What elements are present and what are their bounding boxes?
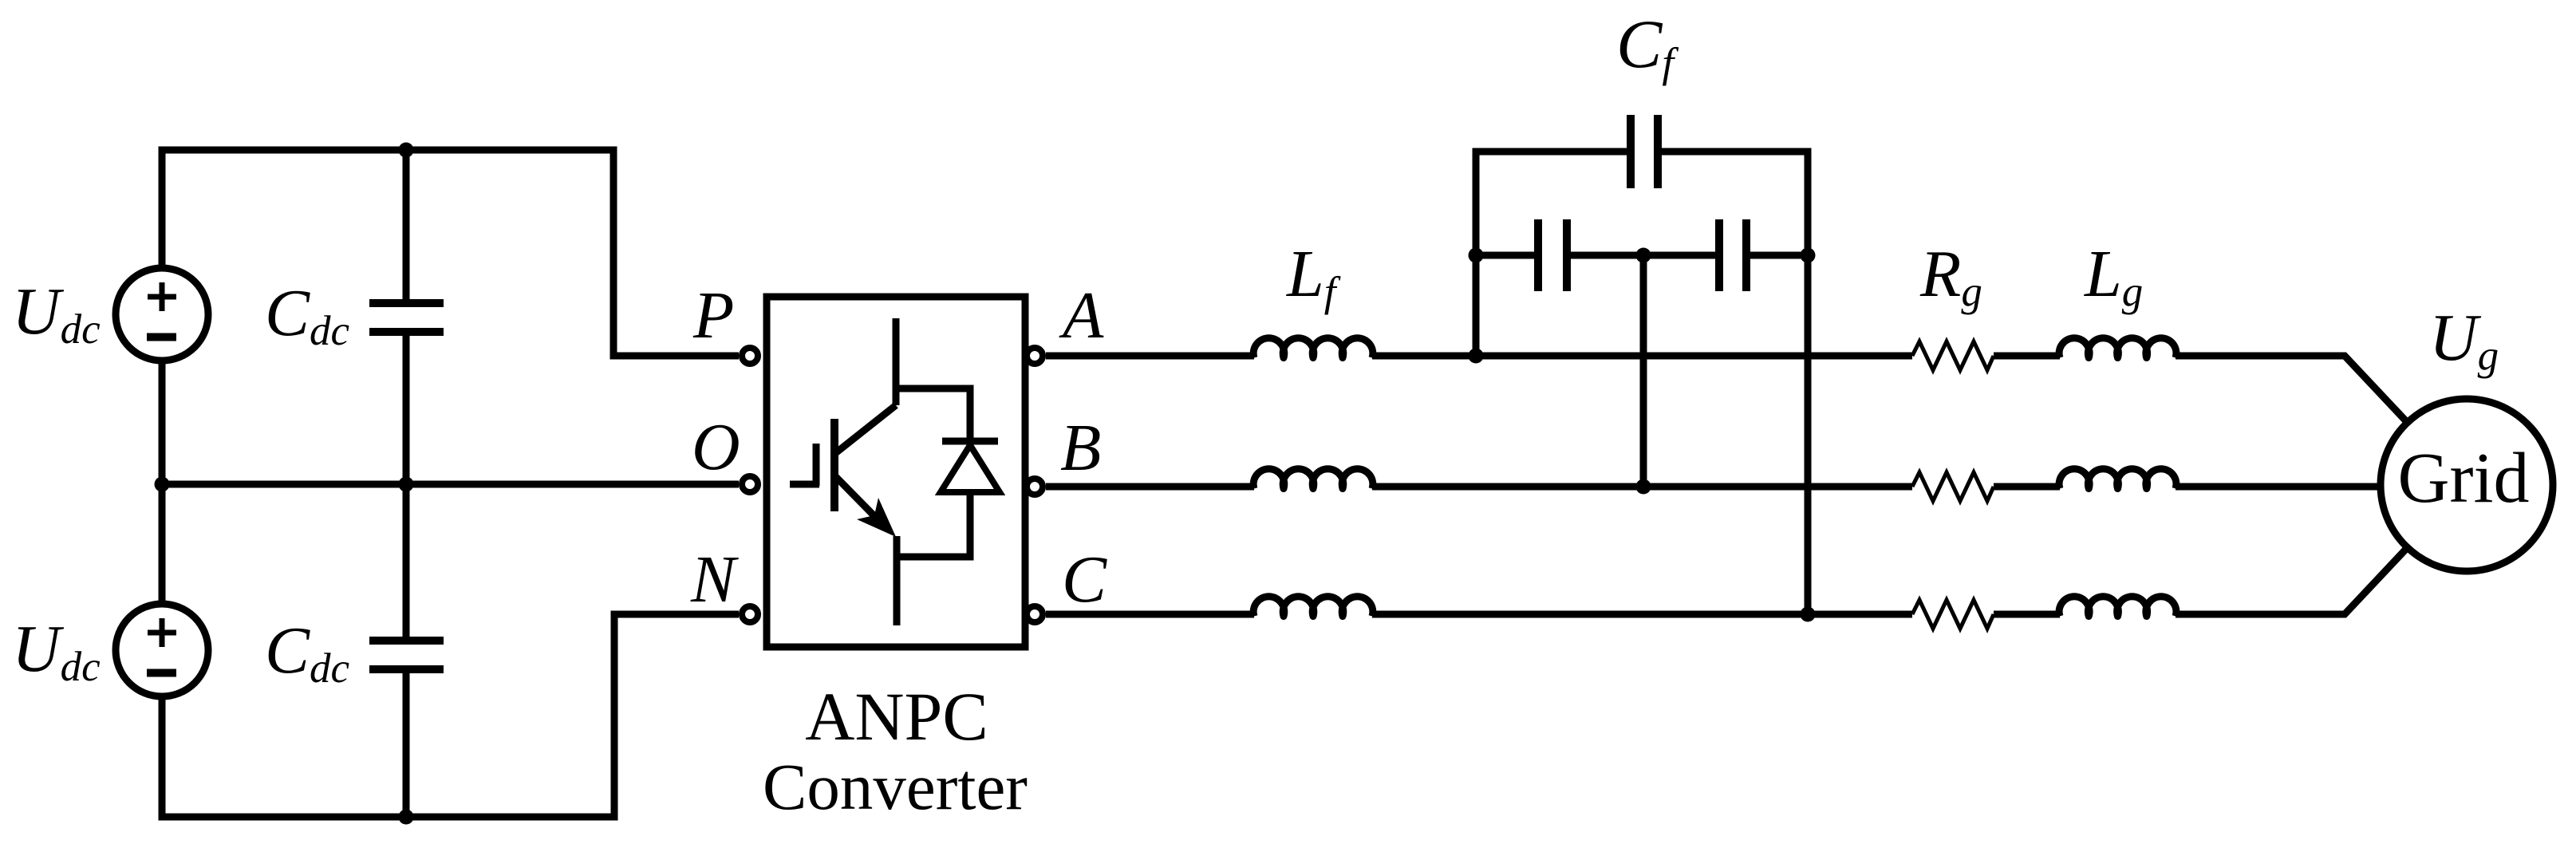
capacitor Cf left (AB) xyxy=(1538,219,1567,291)
svg-text:P: P xyxy=(692,278,734,353)
inductor Lg-B xyxy=(2059,469,2176,489)
junction Cf left node xyxy=(1469,248,1484,263)
wire phase B: terminal to Lf xyxy=(1046,483,1254,491)
collector stub xyxy=(893,318,900,405)
wire Cf mid row right xyxy=(1750,252,1809,259)
svg-text:Rg: Rg xyxy=(1919,237,1982,315)
inductor Lg-A xyxy=(2059,338,2176,358)
capacitor Cdc2 xyxy=(369,641,444,669)
svg-text:Udc: Udc xyxy=(12,274,101,353)
wire phase C: Rg to Lg xyxy=(1994,611,2060,618)
terminal A xyxy=(1027,348,1043,364)
wire left branch: source1 bottom through O bus to source2 top xyxy=(159,361,166,605)
wire phase C: terminal to Lf xyxy=(1046,611,1254,618)
wire phase A: terminal to Lf xyxy=(1046,353,1254,360)
resistor Rg-C xyxy=(1912,600,1994,629)
svg-text:Grid: Grid xyxy=(2398,439,2530,518)
svg-text:A: A xyxy=(1059,278,1104,353)
terminal O xyxy=(742,476,758,492)
inductor Lf-A xyxy=(1253,338,1373,358)
junction O bus / Cdc branch xyxy=(399,477,414,492)
voltage source Udc1 xyxy=(116,268,208,361)
junction phase B / Cf xyxy=(1636,479,1651,495)
junction top bus / Cdc1 xyxy=(399,143,414,158)
resistor Rg-A xyxy=(1912,341,1994,370)
inductor Lf-C xyxy=(1253,597,1373,617)
wire Cf top-right segment and right riser xyxy=(1662,152,1809,614)
wire Cf mid row left xyxy=(1476,252,1535,259)
svg-text:Cdc: Cdc xyxy=(265,276,349,354)
svg-text:Ug: Ug xyxy=(2429,301,2499,379)
body bar xyxy=(830,419,838,511)
wire Cdc2 branch top xyxy=(403,484,410,637)
svg-text:B: B xyxy=(1060,411,1101,485)
svg-text:Lf: Lf xyxy=(1286,237,1341,315)
diode D1 inside converter xyxy=(941,441,1000,492)
svg-text:N: N xyxy=(690,542,739,617)
capacitor Cf right (BC) xyxy=(1719,219,1746,291)
diode triangle xyxy=(941,445,1000,492)
wire Cdc2 branch bottom xyxy=(403,673,410,817)
capacitor Cf top (AC) xyxy=(1631,115,1658,188)
svg-text:C: C xyxy=(1062,542,1107,617)
junction phase C / Cf xyxy=(1801,607,1816,622)
IGBT Q1 inside converter xyxy=(790,318,970,625)
wire phase B: Rg to Lg xyxy=(1994,483,2060,491)
svg-text:Udc: Udc xyxy=(12,612,101,690)
terminal N xyxy=(742,606,758,622)
junction Cf right node xyxy=(1801,248,1816,263)
wire phase B: Lf to Rg xyxy=(1372,483,1912,491)
wire P net: source1 top, top DC bus, right riser, P lead xyxy=(162,150,739,356)
IGBT emitter arrowhead xyxy=(857,498,896,537)
wire phase C: Lg to grid diagonal xyxy=(2176,547,2408,614)
collector diagonal xyxy=(834,405,896,454)
wire Cdc1 branch top xyxy=(403,150,410,300)
wire Cf middle stub to B xyxy=(1640,255,1647,487)
diode cathode bar xyxy=(942,438,998,445)
grid source G1 xyxy=(2381,399,2553,571)
resistor Rg-B xyxy=(1912,472,1994,501)
capacitor Cdc1 xyxy=(369,303,444,332)
terminal P xyxy=(742,348,758,364)
wire phase A: Rg to Lg xyxy=(1994,353,2060,360)
wire phase A: Lg to grid diagonal xyxy=(2176,356,2408,423)
wire Cf left stub and top-left segment xyxy=(1476,152,1627,356)
junction phase A / Cf xyxy=(1469,349,1484,364)
junction Cf middle node xyxy=(1636,248,1651,263)
collector-diode link xyxy=(896,389,970,440)
svg-text:O: O xyxy=(692,410,740,484)
emitter stub xyxy=(894,536,901,625)
wire N net: source2 bottom, bottom bus, right riser, N lead xyxy=(162,614,739,817)
svg-text:Cdc: Cdc xyxy=(265,613,349,692)
wire phase B: Lg to grid xyxy=(2176,483,2381,491)
voltage source Udc2 xyxy=(116,604,208,696)
gate lead xyxy=(790,481,819,488)
wire phase A: Lf to Rg xyxy=(1372,353,1912,360)
inductor Lf-B xyxy=(1253,469,1373,489)
wire phase C: Lf to Rg xyxy=(1372,611,1912,618)
wire Cf mid row center xyxy=(1571,252,1716,259)
inductor Lg-C xyxy=(2059,597,2176,617)
wire O bus xyxy=(162,481,739,488)
svg-text:Converter: Converter xyxy=(763,750,1028,823)
svg-text:Cf: Cf xyxy=(1616,6,1679,86)
terminal C xyxy=(1027,606,1043,622)
junction O bus / left branch xyxy=(155,477,170,492)
gate bar xyxy=(813,444,820,486)
emitter-diode link xyxy=(897,492,970,557)
wire Cdc1 branch bottom xyxy=(403,336,410,484)
emitter diagonal xyxy=(836,477,882,523)
svg-text:Lg: Lg xyxy=(2084,237,2143,315)
ANPC converter box U1 xyxy=(767,297,1025,647)
junction bottom bus / Cdc2 xyxy=(399,810,414,825)
svg-text:ANPC: ANPC xyxy=(805,678,988,755)
terminal B xyxy=(1027,479,1043,495)
